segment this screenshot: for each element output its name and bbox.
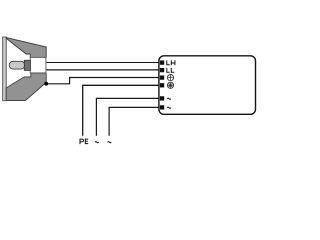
earth symbol circle-star at terminal 4 bbox=[167, 82, 173, 88]
label tilde mains 1 bbox=[95, 142, 99, 143]
label LH bbox=[166, 60, 175, 65]
lamp burner pinch bbox=[24, 60, 30, 70]
earth symbol circle-plus at terminal 3 bbox=[167, 75, 173, 81]
lamp LA1 (halogen reflector lamp) bbox=[3, 37, 47, 101]
label tilde at terminal 5 bbox=[167, 98, 171, 99]
terminal 5 bbox=[160, 96, 164, 100]
terminal 3 bbox=[160, 75, 164, 79]
terminal 4 bbox=[160, 83, 164, 87]
label tilde at terminal 6 bbox=[167, 107, 171, 108]
lamp reflector bottom wedge bbox=[6, 73, 46, 101]
lamp reflector top wedge bbox=[6, 38, 46, 58]
lamp base block bbox=[30, 57, 46, 73]
wire PE to terminal 4 bbox=[83, 85, 161, 136]
wire lamp to LL bbox=[46, 69, 161, 71]
wire mains 1 to terminal 5 bbox=[96, 98, 161, 135]
junction dot on lamp bbox=[44, 82, 48, 86]
control gear box U1 bbox=[159, 56, 256, 115]
lamp burner capsule bbox=[9, 61, 25, 69]
lamp front glass bar bbox=[3, 37, 7, 101]
label PE bbox=[80, 139, 89, 145]
label tilde mains 2 bbox=[108, 142, 112, 143]
terminal 2 bbox=[160, 68, 164, 72]
terminal 6 bbox=[160, 105, 164, 109]
label LL bbox=[166, 68, 174, 73]
wire lamp to LH bbox=[46, 62, 161, 64]
wire mains 2 to terminal 6 bbox=[109, 107, 161, 135]
wire lamp body earth to terminal 3 bbox=[46, 78, 161, 84]
terminal 1 bbox=[160, 60, 164, 64]
